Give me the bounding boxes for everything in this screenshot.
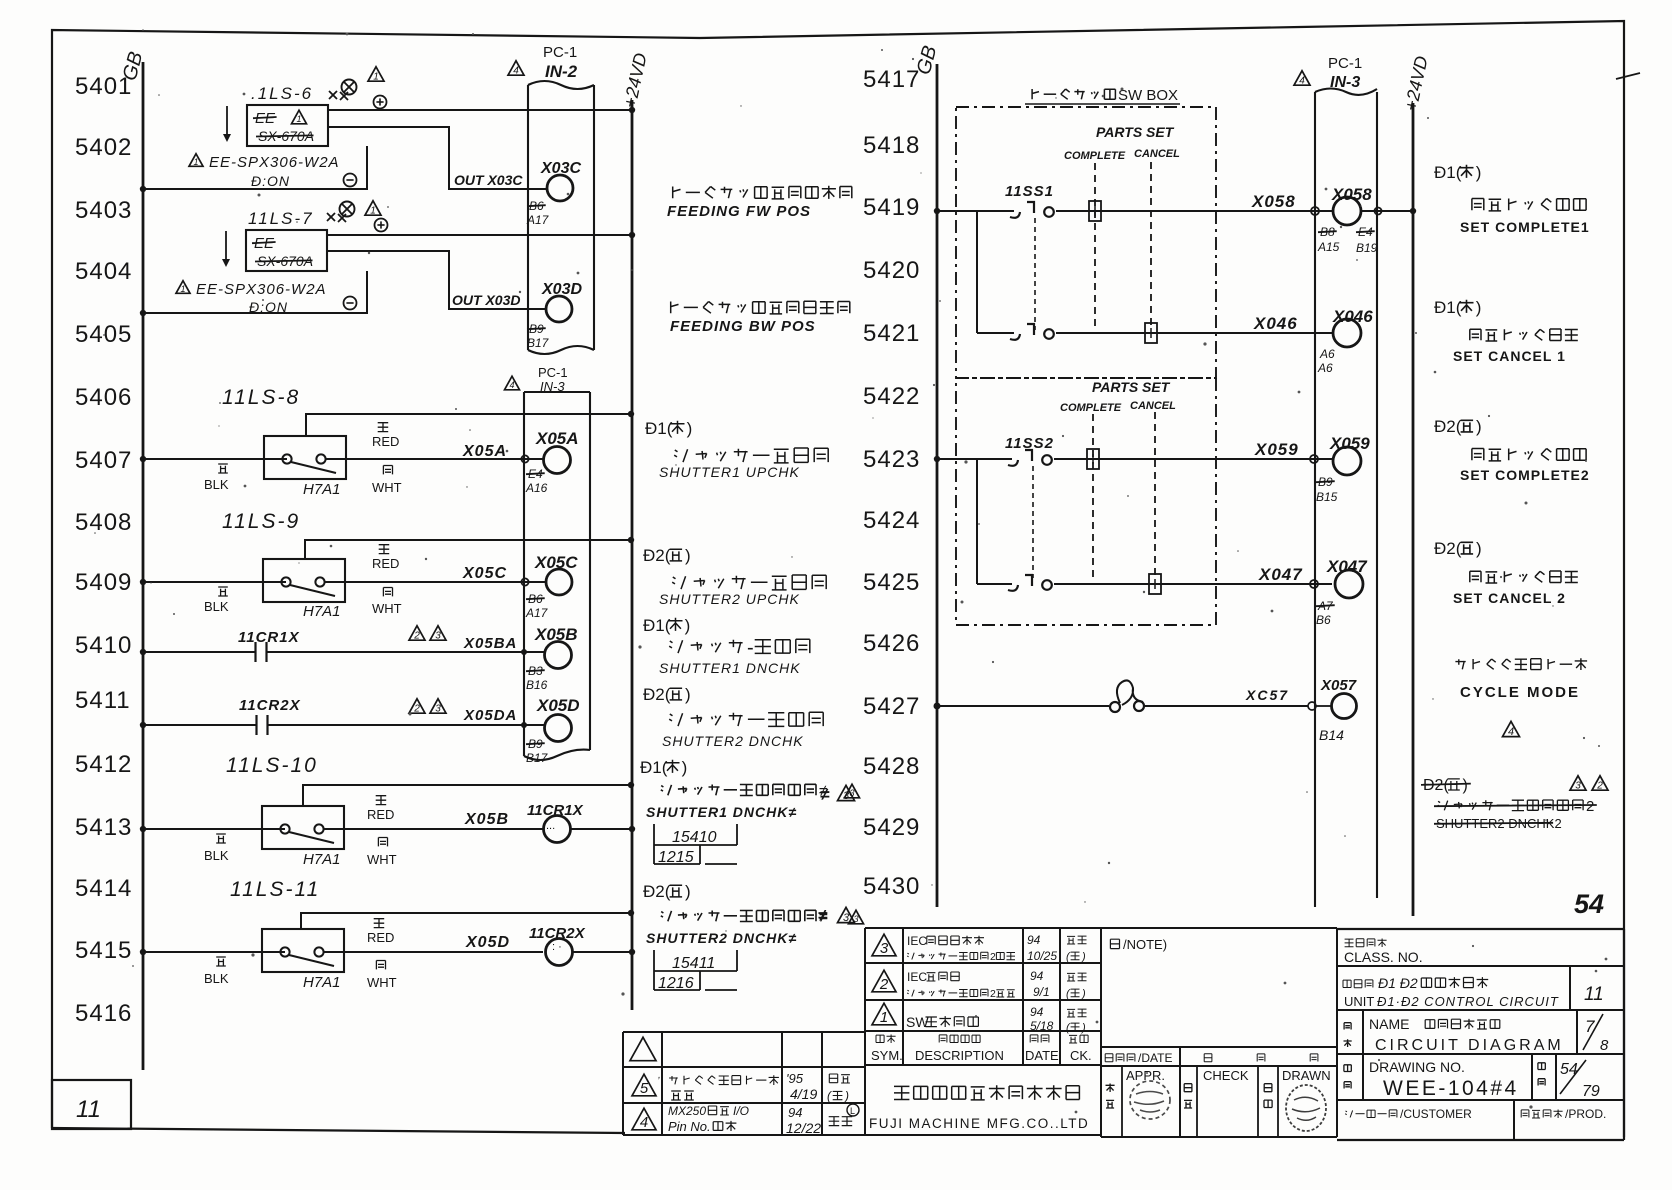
svg-text:): ) bbox=[685, 882, 691, 901]
relay contact 11CR1X row 5410 bbox=[140, 629, 545, 662]
svg-text:RED: RED bbox=[367, 930, 394, 945]
svg-text:UNIT: UNIT bbox=[1344, 994, 1374, 1009]
connector tab CANCEL row 5421 bbox=[1145, 323, 1157, 343]
svg-text:Đ1(: Đ1( bbox=[645, 419, 673, 438]
cross reference box 15411/1216 bbox=[654, 950, 737, 992]
svg-text:4: 4 bbox=[640, 1114, 648, 1131]
svg-text:WHT: WHT bbox=[367, 852, 397, 867]
bus +24VD left bbox=[620, 51, 651, 1010]
svg-text:IEC: IEC bbox=[907, 934, 927, 948]
svg-text:9/1: 9/1 bbox=[1033, 985, 1050, 999]
connector pin X03D bbox=[527, 281, 582, 350]
svg-text:L: L bbox=[850, 1106, 855, 1116]
svg-text:X047: X047 bbox=[1326, 557, 1368, 576]
svg-text:94: 94 bbox=[1027, 933, 1041, 947]
svg-text:5427: 5427 bbox=[863, 693, 920, 720]
svg-text:2: 2 bbox=[1596, 781, 1603, 792]
title block approval section bbox=[1101, 928, 1337, 1137]
cross reference box 15410/1215 bbox=[654, 824, 737, 866]
right ladder line numbers 5417-5430 bbox=[863, 66, 920, 900]
svg-text:5421: 5421 bbox=[863, 320, 920, 347]
svg-text:5426: 5426 bbox=[863, 630, 920, 657]
svg-text:CHECK: CHECK bbox=[1203, 1068, 1249, 1083]
annotation set cancel 1 bbox=[1434, 298, 1578, 364]
wire label X058 bbox=[1251, 192, 1296, 211]
svg-text:5406: 5406 bbox=[75, 384, 132, 411]
svg-text:CIRCUIT DIAGRAM: CIRCUIT DIAGRAM bbox=[1375, 1037, 1564, 1054]
svg-text:B14: B14 bbox=[1319, 727, 1344, 743]
annotation column shutter check labels bbox=[640, 419, 828, 901]
svg-text:11CR2X: 11CR2X bbox=[239, 697, 301, 714]
title block revision table middle bbox=[865, 928, 1101, 1065]
svg-text:COMPLETE: COMPLETE bbox=[1060, 402, 1122, 414]
svg-text:5418: 5418 bbox=[863, 132, 920, 159]
struck out annotation shutter2 dnchk2 bbox=[1421, 776, 1608, 831]
revision triangles row 5410 bbox=[409, 626, 446, 642]
connector pin X058 bbox=[1311, 185, 1378, 255]
wire 5409 red to +24VD bus bbox=[305, 537, 634, 559]
wire 5415 rung bbox=[140, 949, 543, 955]
svg-text:X047: X047 bbox=[1258, 565, 1303, 584]
svg-text:1: 1 bbox=[180, 284, 185, 294]
wire 5421 rung bbox=[977, 332, 1332, 334]
svg-text:): ) bbox=[687, 419, 693, 438]
svg-text:BLK: BLK bbox=[204, 971, 229, 986]
svg-text:.1LS-6: .1LS-6 bbox=[251, 84, 313, 103]
annotation set cancel 2 bbox=[1434, 539, 1578, 606]
svg-text:3: 3 bbox=[843, 790, 850, 802]
svg-text:): ) bbox=[685, 685, 691, 704]
svg-text:3: 3 bbox=[843, 912, 850, 924]
svg-text:SET CANCEL 1: SET CANCEL 1 bbox=[1453, 348, 1566, 364]
sensor 1LS-6 model note EE-SPX306-W2A D:ON bbox=[189, 154, 340, 189]
svg-text:DATE: DATE bbox=[1025, 1048, 1059, 1063]
annotation cycle mode bbox=[1455, 658, 1587, 738]
connector tab CANCEL row 5425 bbox=[1149, 574, 1161, 594]
svg-text:X05DA: X05DA bbox=[463, 707, 517, 724]
svg-text:5403: 5403 bbox=[75, 197, 132, 224]
limit switch 1LS-11 contact box H7A1 bbox=[262, 929, 344, 991]
svg-text:5422: 5422 bbox=[863, 383, 920, 410]
svg-text:IN-2: IN-2 bbox=[545, 62, 578, 81]
cartridge SW BOX enclosure 2 bbox=[956, 378, 1216, 625]
svg-text:X058: X058 bbox=[1251, 192, 1296, 211]
svg-text:RED: RED bbox=[367, 807, 394, 822]
svg-text:Đ1(: Đ1( bbox=[640, 758, 668, 777]
svg-text:5412: 5412 bbox=[75, 751, 132, 778]
svg-text:11: 11 bbox=[1584, 984, 1604, 1005]
svg-text:EE-SPX306-W2A: EE-SPX306-W2A bbox=[209, 154, 340, 171]
svg-text:79: 79 bbox=[1582, 1083, 1600, 1100]
limit sensor 1LS-6 label bbox=[251, 84, 313, 103]
svg-text:COMPLETE: COMPLETE bbox=[1064, 150, 1126, 162]
sensor 1LS-6 box with struck-out EE SX-670A bbox=[223, 105, 328, 146]
svg-text:IN-3: IN-3 bbox=[540, 379, 565, 394]
wire label X047 bbox=[1258, 565, 1303, 584]
crossed-out terminal symbol row 5403 bbox=[327, 202, 355, 223]
svg-text:5407: 5407 bbox=[75, 447, 132, 474]
svg-text:EE-SPX306-W2A: EE-SPX306-W2A bbox=[196, 281, 327, 298]
svg-text:...: ... bbox=[546, 820, 555, 832]
svg-text:X05C: X05C bbox=[462, 565, 507, 582]
svg-text:IN-3: IN-3 bbox=[1330, 74, 1360, 91]
svg-text:3: 3 bbox=[435, 704, 441, 715]
svg-text:CLASS. NO.: CLASS. NO. bbox=[1344, 949, 1423, 965]
svg-text:11LS-11: 11LS-11 bbox=[230, 878, 320, 901]
svg-text:11SS1: 11SS1 bbox=[1005, 183, 1054, 200]
svg-text:11LS-9: 11LS-9 bbox=[222, 510, 300, 533]
wire second pole drop 11SS1 bbox=[976, 211, 978, 333]
connector block PC-1 IN-3 right bbox=[1294, 55, 1377, 907]
dashed signal line CANCEL box2 bbox=[1154, 412, 1156, 580]
limit switch 1LS-9 contact box H7A1 bbox=[263, 559, 345, 620]
svg-text:11CR1X: 11CR1X bbox=[527, 802, 584, 819]
dashed signal line COMPLETE box1 bbox=[1094, 163, 1096, 330]
svg-text:SHUTTER1 DNCHK: SHUTTER1 DNCHK bbox=[659, 660, 801, 676]
svg-text:5408: 5408 bbox=[75, 509, 132, 536]
svg-text:5: 5 bbox=[640, 1080, 649, 1097]
svg-text:PC-1: PC-1 bbox=[538, 365, 568, 380]
wire label X059 bbox=[1254, 440, 1299, 459]
svg-text:X03D: X03D bbox=[541, 281, 582, 298]
label OUT X03C bbox=[454, 172, 523, 188]
svg-text:/NOTE): /NOTE) bbox=[1123, 937, 1167, 952]
svg-text:): ) bbox=[1463, 777, 1468, 794]
svg-text:≠: ≠ bbox=[820, 785, 830, 804]
svg-text:NAME: NAME bbox=[1369, 1016, 1409, 1032]
svg-text:SHUTTER2 UPCHK: SHUTTER2 UPCHK bbox=[659, 591, 800, 607]
svg-text:1: 1 bbox=[370, 206, 376, 217]
svg-text:): ) bbox=[1476, 163, 1482, 182]
minus terminal row 5402 bbox=[344, 174, 357, 187]
selector switch 11SS2 bbox=[1005, 435, 1054, 578]
svg-text:3: 3 bbox=[880, 940, 889, 957]
wire 5423 rung bbox=[934, 456, 1332, 462]
svg-text:B16: B16 bbox=[526, 678, 548, 692]
svg-text:X05D: X05D bbox=[536, 696, 580, 715]
svg-text:B17: B17 bbox=[527, 336, 550, 350]
svg-text:4: 4 bbox=[513, 66, 519, 77]
wire 5415 red to +24VD bus bbox=[301, 910, 634, 929]
svg-text:X05D: X05D bbox=[465, 934, 510, 951]
revision triangle row 5403 bbox=[365, 201, 381, 217]
svg-text:H7A1: H7A1 bbox=[303, 603, 341, 620]
connector pin X03C bbox=[526, 160, 581, 227]
svg-text:1: 1 bbox=[373, 72, 379, 83]
svg-text:12/22: 12/22 bbox=[786, 1120, 821, 1136]
connector pin X047 bbox=[1310, 557, 1368, 627]
wire 5403 sensor plus to +24VD bus bbox=[327, 232, 635, 238]
svg-text:X046: X046 bbox=[1332, 307, 1373, 326]
svg-text:BLK: BLK bbox=[204, 599, 229, 614]
svg-text:Đ1(: Đ1( bbox=[1434, 298, 1462, 317]
svg-text:A17: A17 bbox=[525, 606, 549, 620]
label OUT X03D bbox=[452, 292, 520, 308]
svg-text:/PROD.: /PROD. bbox=[1565, 1107, 1606, 1121]
svg-text:B19: B19 bbox=[1356, 241, 1378, 255]
top right corner tick bbox=[1616, 73, 1640, 79]
minus terminal row 5404 bbox=[344, 297, 357, 310]
pushbutton XC57 row 5427 bbox=[934, 680, 1309, 712]
svg-text:): ) bbox=[682, 758, 688, 777]
annotation feeding fw pos bbox=[667, 186, 852, 220]
svg-text:CK.: CK. bbox=[1070, 1048, 1092, 1063]
svg-text:Đ:ON: Đ:ON bbox=[251, 173, 290, 189]
selector switch 11SS1 pole2 bbox=[1010, 324, 1054, 340]
svg-text:DESCRIPTION: DESCRIPTION bbox=[915, 1048, 1004, 1063]
svg-text:94: 94 bbox=[788, 1105, 802, 1120]
sheet number box bottom left bbox=[52, 1080, 131, 1129]
svg-text:Đ1(: Đ1( bbox=[643, 616, 671, 635]
annotation feeding bw pos bbox=[670, 301, 850, 335]
limit switch 1LS-10 label bbox=[226, 754, 318, 777]
svg-text:2: 2 bbox=[413, 704, 420, 715]
wire second pole drop 11SS2 bbox=[976, 459, 978, 584]
svg-text:5430: 5430 bbox=[863, 873, 920, 900]
left ladder line numbers 5401-5416 bbox=[75, 73, 132, 1027]
svg-text:Đ1·Đ2 CONTROL CIRCUIT: Đ1·Đ2 CONTROL CIRCUIT bbox=[1377, 994, 1559, 1009]
connector tab COMPLETE row 5419 bbox=[1089, 201, 1101, 221]
wire label X05DA bbox=[463, 707, 517, 724]
svg-text:3: 3 bbox=[1575, 781, 1581, 792]
svg-text:2: 2 bbox=[879, 976, 889, 993]
svg-text:1: 1 bbox=[193, 157, 198, 167]
sensor 1LS-7 model note EE-SPX306-W2A D:ON bbox=[176, 281, 327, 315]
aux mark not-equal triangle row 5428 bbox=[820, 785, 855, 804]
svg-text:X057: X057 bbox=[1320, 677, 1357, 694]
svg-text:CANCEL: CANCEL bbox=[1130, 400, 1176, 412]
selector switch 11SS1 bbox=[1005, 183, 1054, 330]
svg-text:PC-1: PC-1 bbox=[1328, 55, 1362, 72]
annotation set complete 2 bbox=[1434, 417, 1590, 483]
wire label X05B row 5413 bbox=[464, 811, 509, 828]
svg-text:SET COMPLETE2: SET COMPLETE2 bbox=[1460, 467, 1590, 483]
wire 5413 rung bbox=[140, 826, 543, 832]
svg-text:A16: A16 bbox=[525, 481, 548, 495]
annotation shutter1 dnchk aux with triangle bbox=[646, 783, 860, 820]
svg-text:5411: 5411 bbox=[75, 687, 131, 714]
title block revision table left bbox=[623, 1032, 865, 1136]
svg-text:WHT: WHT bbox=[372, 601, 402, 616]
crossed-out terminal symbol row 5401 bbox=[329, 80, 357, 101]
aux mark not-equal triangle row 5430 bbox=[818, 906, 855, 925]
wire X058 to +24VD bus bbox=[1361, 208, 1416, 215]
connector block PC-1 IN-2 bbox=[508, 44, 594, 354]
wire 5401 sensor plus to +24VD bus bbox=[328, 107, 635, 113]
svg-text:11CR2X: 11CR2X bbox=[529, 925, 586, 942]
wire color labels row 5409 bbox=[204, 545, 402, 616]
svg-text:Đ1(: Đ1( bbox=[1434, 163, 1462, 182]
connector pin X059 bbox=[1310, 434, 1370, 504]
selector switch 11SS2 pole2 bbox=[1008, 575, 1052, 591]
svg-text:): ) bbox=[685, 616, 691, 635]
dashed signal line COMPLETE box2 bbox=[1092, 414, 1094, 580]
svg-text:1: 1 bbox=[296, 114, 301, 124]
svg-text:11CR1X: 11CR1X bbox=[238, 629, 300, 646]
svg-text:CYCLE MODE: CYCLE MODE bbox=[1460, 684, 1580, 701]
title block note area bbox=[1101, 928, 1337, 952]
svg-text:A17: A17 bbox=[526, 213, 550, 227]
wire 5404 sensor OUT to X03D bbox=[327, 251, 546, 309]
parts set labels box2 bbox=[1060, 379, 1176, 414]
svg-text:5425: 5425 bbox=[863, 569, 920, 596]
svg-text:SET CANCEL 2: SET CANCEL 2 bbox=[1453, 590, 1566, 606]
annotation set complete 1 bbox=[1434, 163, 1590, 235]
wire label X05D row 5415 bbox=[465, 934, 510, 951]
svg-text:X05A: X05A bbox=[462, 443, 507, 460]
wire color labels row 5407 bbox=[204, 423, 402, 495]
svg-text:RED: RED bbox=[372, 556, 399, 571]
svg-text:): ) bbox=[1476, 417, 1482, 436]
limit switch 1LS-11 label bbox=[230, 878, 320, 901]
svg-text:-: - bbox=[747, 637, 754, 659]
svg-text:5402: 5402 bbox=[75, 134, 132, 161]
svg-text:SHUTTER1 UPCHK: SHUTTER1 UPCHK bbox=[659, 464, 800, 480]
relay coil 11CR2X bbox=[529, 925, 635, 966]
wire 5419 rung bbox=[934, 208, 1332, 214]
svg-text:X05C: X05C bbox=[534, 553, 578, 572]
svg-text:Đ2(: Đ2( bbox=[1434, 417, 1462, 436]
revision triangles row 5411 bbox=[409, 699, 446, 715]
svg-text:5414: 5414 bbox=[75, 875, 132, 902]
svg-text:4: 4 bbox=[1508, 726, 1514, 738]
svg-text:SHUTTER2 DNCHK≠: SHUTTER2 DNCHK≠ bbox=[646, 930, 797, 946]
wire color labels row 5413 bbox=[204, 796, 397, 867]
wire 5425 rung bbox=[977, 583, 1332, 585]
svg-text:'95: '95 bbox=[786, 1071, 804, 1086]
svg-text:A6: A6 bbox=[1319, 347, 1335, 361]
svg-text:CANCEL: CANCEL bbox=[1134, 148, 1180, 160]
svg-text:FEEDING BW POS: FEEDING BW POS bbox=[670, 318, 816, 335]
limit switch 1LS-8 contact box H7A1 bbox=[264, 436, 346, 498]
svg-text:2: 2 bbox=[413, 631, 420, 642]
svg-text:Đ2(: Đ2( bbox=[1434, 539, 1462, 558]
svg-text:15411: 15411 bbox=[672, 955, 715, 972]
svg-text:SYM.: SYM. bbox=[871, 1048, 903, 1063]
svg-text:3: 3 bbox=[435, 631, 441, 642]
relay contact 11CR2X row 5411 bbox=[140, 697, 545, 735]
svg-text:X058: X058 bbox=[1331, 185, 1372, 204]
svg-text:4: 4 bbox=[509, 380, 514, 390]
relay coil 11CR1X bbox=[527, 802, 635, 843]
svg-text:BLK: BLK bbox=[204, 848, 229, 863]
svg-text:I/O: I/O bbox=[733, 1104, 749, 1118]
dashed signal line CANCEL box1 bbox=[1150, 162, 1152, 330]
svg-text:X03C: X03C bbox=[540, 160, 581, 177]
svg-text:7: 7 bbox=[1585, 1017, 1595, 1036]
limit switch 1LS-8 label bbox=[222, 386, 300, 409]
svg-text:54: 54 bbox=[1560, 1061, 1578, 1078]
connector tab COMPLETE row 5423 bbox=[1087, 449, 1099, 469]
plus terminal row 5401 bbox=[374, 96, 387, 109]
svg-text:/DATE: /DATE bbox=[1138, 1051, 1172, 1065]
revision triangle row 5401 bbox=[368, 67, 384, 83]
svg-text:WEE-104#4: WEE-104#4 bbox=[1383, 1077, 1519, 1100]
svg-text:SW BOX: SW BOX bbox=[1118, 87, 1178, 104]
svg-text:/CUSTOMER: /CUSTOMER bbox=[1400, 1107, 1472, 1121]
wire 5407 rung bbox=[140, 455, 544, 462]
svg-text:94: 94 bbox=[1030, 969, 1044, 983]
svg-text:8: 8 bbox=[1600, 1037, 1609, 1054]
svg-text:10/25: 10/25 bbox=[1027, 949, 1057, 963]
svg-text:11: 11 bbox=[76, 1096, 101, 1123]
parts set labels box1 bbox=[1064, 124, 1180, 162]
svg-text:54: 54 bbox=[1574, 889, 1604, 919]
svg-text:H7A1: H7A1 bbox=[303, 851, 341, 868]
bus +24VD right bbox=[1401, 54, 1432, 916]
svg-text:5416: 5416 bbox=[75, 1000, 132, 1027]
limit switch 1LS-10 contact box H7A1 bbox=[262, 806, 344, 868]
handwritten page number 54 bbox=[1574, 889, 1604, 919]
svg-text:X05A: X05A bbox=[535, 429, 579, 448]
svg-text:DRAWING NO.: DRAWING NO. bbox=[1369, 1059, 1465, 1075]
svg-text:): ) bbox=[685, 546, 691, 565]
svg-text:4: 4 bbox=[1299, 76, 1305, 87]
bus GB right bbox=[913, 43, 942, 907]
svg-text:94: 94 bbox=[1030, 1005, 1044, 1019]
wire label X05BA bbox=[463, 635, 517, 652]
svg-text:Pin No.: Pin No. bbox=[668, 1119, 711, 1134]
svg-text:2: 2 bbox=[990, 988, 996, 1000]
sensor 1LS-7 box with struck-out EE SX-670A bbox=[222, 230, 327, 271]
svg-text:5429: 5429 bbox=[863, 814, 920, 841]
svg-text:WHT: WHT bbox=[367, 975, 397, 990]
svg-text:PARTS SET: PARTS SET bbox=[1092, 379, 1171, 395]
svg-text:H7A1: H7A1 bbox=[303, 974, 341, 991]
svg-text:X05B: X05B bbox=[464, 811, 509, 828]
bus GB left bbox=[119, 49, 148, 1070]
svg-text:): ) bbox=[1476, 298, 1482, 317]
svg-text:A15: A15 bbox=[1317, 240, 1340, 254]
svg-text:5428: 5428 bbox=[863, 753, 920, 780]
svg-text:WHT: WHT bbox=[372, 480, 402, 495]
svg-text:11LS-7: 11LS-7 bbox=[248, 209, 314, 228]
svg-text:X059: X059 bbox=[1329, 434, 1370, 453]
svg-text:Đ2(: Đ2( bbox=[643, 546, 671, 565]
wire 5409 rung bbox=[140, 578, 546, 585]
svg-text:BLK: BLK bbox=[204, 477, 229, 492]
svg-text:X05BA: X05BA bbox=[463, 635, 517, 652]
connector pin X05C bbox=[525, 553, 578, 620]
svg-text:SHUTTER1 DNCHK≠: SHUTTER1 DNCHK≠ bbox=[646, 804, 797, 820]
connector pin X057 bbox=[1308, 677, 1357, 743]
wire label X05A bbox=[462, 443, 507, 460]
svg-text:PARTS SET: PARTS SET bbox=[1096, 124, 1175, 140]
svg-text:5420: 5420 bbox=[863, 257, 920, 284]
svg-text:FEEDING FW POS: FEEDING FW POS bbox=[667, 203, 811, 220]
svg-text:: ·: : · bbox=[552, 941, 562, 953]
svg-text:5/18: 5/18 bbox=[1030, 1019, 1054, 1033]
svg-text:XC57: XC57 bbox=[1245, 687, 1289, 703]
svg-text:≠: ≠ bbox=[818, 906, 828, 925]
wire label XC57 bbox=[1245, 687, 1289, 703]
svg-text:B15: B15 bbox=[1316, 490, 1338, 504]
svg-text:5419: 5419 bbox=[863, 194, 920, 221]
svg-text:2: 2 bbox=[990, 951, 996, 963]
limit switch 1LS-9 label bbox=[222, 510, 300, 533]
svg-text:Đ1 Đ2: Đ1 Đ2 bbox=[1378, 975, 1418, 991]
svg-text:X059: X059 bbox=[1254, 440, 1299, 459]
svg-text:X05B: X05B bbox=[534, 625, 578, 644]
svg-text:11LS-10: 11LS-10 bbox=[226, 754, 318, 777]
svg-text:Đ2(: Đ2( bbox=[643, 882, 671, 901]
wire label X05C bbox=[462, 565, 507, 582]
wire 5405 sensor minus to GB bus bbox=[140, 271, 367, 316]
svg-text:5417: 5417 bbox=[863, 66, 920, 93]
svg-text:15410: 15410 bbox=[672, 829, 717, 846]
connector pin X05A bbox=[525, 429, 579, 495]
cartridge SW BOX enclosure 1 bbox=[956, 87, 1216, 378]
